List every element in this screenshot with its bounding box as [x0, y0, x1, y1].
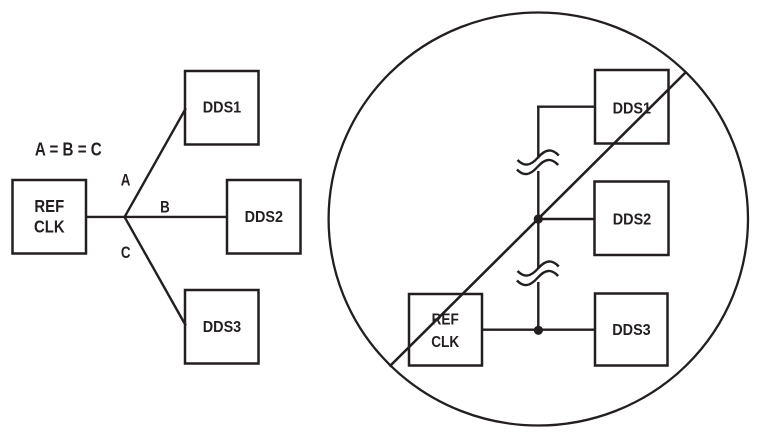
box DDS1 (left diagram) — [185, 71, 259, 145]
wire B: REF CLK to DDS2 (horizontal) — [86, 216, 227, 218]
wire: vertical bus lower segment (DDS3 wire up to lower break) — [537, 282, 539, 330]
svg-text:CLK: CLK — [431, 334, 459, 351]
svg-text:REF: REF — [34, 197, 64, 216]
wire: top horizontal to DDS1 — [537, 105, 595, 107]
svg-text:A: A — [121, 172, 131, 189]
svg-text:CLK: CLK — [34, 217, 65, 236]
wire: middle horizontal to DDS2 — [538, 218, 594, 220]
wire: vertical bus upper segment (upper break to top corner) — [537, 106, 539, 159]
box DDS2 (right diagram) — [595, 182, 669, 256]
junction dot at DDS3 wire — [534, 326, 543, 335]
svg-text:B: B — [160, 199, 170, 216]
svg-text:C: C — [121, 245, 131, 262]
box DDS3 (left diagram) — [185, 290, 259, 364]
prohibition slash (diagonal line) — [390, 72, 687, 367]
box DDS1 (right diagram) — [595, 70, 669, 144]
break symbol (upper) wave 2 — [517, 160, 558, 174]
wire A: junction to DDS1 (diagonal) — [125, 108, 186, 217]
svg-text:DDS2: DDS2 — [245, 208, 283, 226]
box REF CLK (left diagram) — [13, 180, 87, 254]
label REF CLK (right) — [431, 311, 459, 351]
svg-text:DDS3: DDS3 — [612, 321, 650, 339]
svg-text:A = B = C: A = B = C — [35, 139, 102, 160]
box REF CLK (right diagram) — [409, 294, 482, 366]
label REF CLK (left) — [34, 197, 65, 237]
svg-text:DDS2: DDS2 — [613, 211, 651, 229]
prohibition circle (right diagram) — [329, 13, 748, 426]
break symbol (upper) wave 1 — [518, 150, 559, 164]
svg-text:DDS3: DDS3 — [203, 318, 241, 336]
svg-text:DDS1: DDS1 — [203, 99, 242, 117]
box DDS3 (right diagram) — [595, 294, 668, 366]
wire: vertical bus middle segment (lower break to upper break) — [537, 171, 539, 269]
wire C: junction to DDS3 (diagonal) — [125, 217, 186, 326]
break symbol (lower) wave 2 — [517, 271, 558, 285]
junction dot at DDS2 wire — [534, 214, 543, 223]
wire: REF CLK to DDS3 (horizontal) — [482, 329, 595, 331]
box DDS2 (left diagram) — [227, 180, 301, 254]
svg-text:DDS1: DDS1 — [613, 100, 652, 118]
break symbol (lower) wave 1 — [518, 261, 559, 275]
